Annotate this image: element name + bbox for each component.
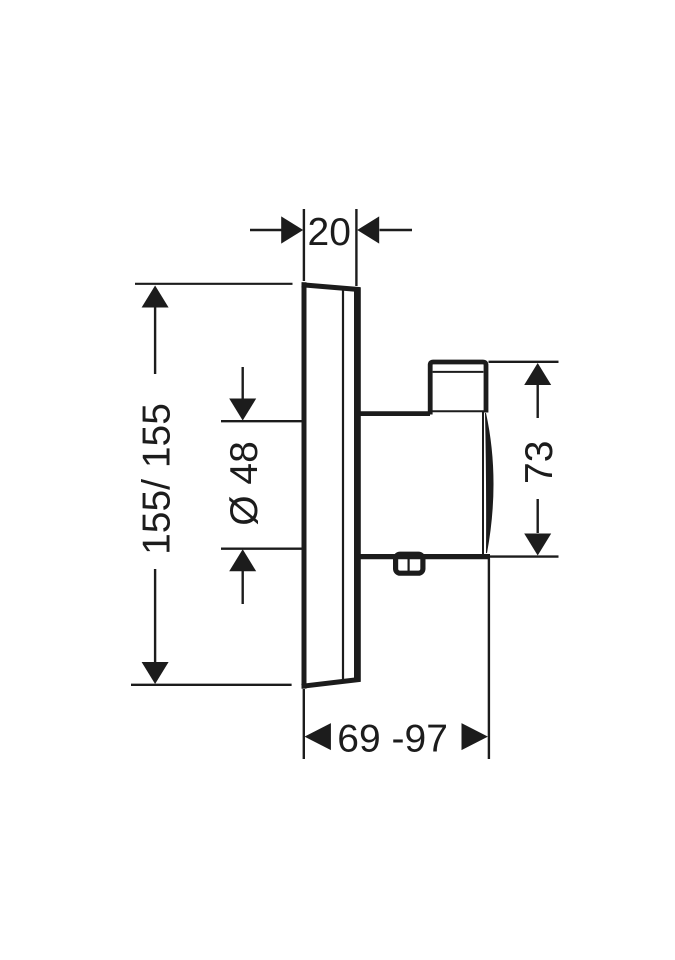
dim 73: upper line bbox=[537, 384, 539, 418]
escutcheon plate: front face inner line bbox=[342, 289, 344, 682]
escutcheon plate side view: left edge bbox=[302, 282, 307, 688]
svg-text:73: 73 bbox=[518, 441, 561, 484]
dim 69-97: right extension line bbox=[488, 559, 490, 760]
svg-text:69 -97: 69 -97 bbox=[337, 718, 448, 761]
dim 69-97: left extension line bbox=[303, 689, 305, 759]
dim 155/155: upper line bbox=[154, 306, 156, 374]
dim 20: left extension line bbox=[303, 209, 305, 281]
svg-text:155/ 155: 155/ 155 bbox=[136, 403, 179, 555]
escutcheon plate: bottom edge bbox=[302, 679, 361, 686]
dim diameter 48: lower arrowhead bbox=[229, 549, 256, 571]
dim 155/155: lower line bbox=[154, 569, 156, 664]
dim 73: bottom extension line bbox=[490, 555, 559, 557]
svg-text:Ø 48: Ø 48 bbox=[223, 441, 266, 526]
dim 73: lower line bbox=[537, 499, 539, 533]
dim 20: right tail bbox=[380, 229, 413, 231]
escutcheon plate: top edge bbox=[302, 285, 361, 290]
dim 155/155: bottom extension line bbox=[131, 684, 292, 686]
valve body: bottom edge bbox=[356, 554, 490, 559]
dim diameter 48: lower line bbox=[241, 570, 243, 604]
dim 20: left arrowhead bbox=[281, 216, 303, 243]
dim diameter 48: upper tick bbox=[221, 420, 303, 422]
svg-text:20: 20 bbox=[308, 211, 351, 254]
escutcheon plate: right edge bbox=[354, 287, 361, 681]
dim 20: right arrowhead bbox=[357, 216, 379, 243]
retaining clip tab bbox=[396, 554, 423, 573]
dim 20: left tail bbox=[250, 229, 282, 231]
dim 20: right extension line bbox=[355, 209, 357, 286]
valve body: top edge bbox=[356, 411, 430, 416]
dim diameter 48: upper line bbox=[241, 367, 243, 400]
clip tab divider bbox=[408, 557, 410, 571]
dim 155/155: top arrowhead bbox=[142, 286, 169, 308]
dim diameter 48: lower tick bbox=[221, 548, 303, 550]
dim diameter 48: upper arrowhead bbox=[229, 399, 256, 421]
valve body: thin edge under knob bbox=[429, 410, 486, 412]
dim 73: upper arrowhead bbox=[524, 363, 551, 385]
stop knob outline bbox=[430, 362, 486, 415]
valve body: right edge bbox=[482, 412, 484, 555]
dim 73: lower arrowhead bbox=[524, 534, 551, 556]
dim 69-97: right arrowhead bbox=[462, 723, 488, 750]
dim 155/155: top extension line bbox=[135, 283, 293, 285]
dim 69-97: left arrowhead bbox=[305, 723, 331, 750]
valve body: cartridge dome arc bbox=[486, 413, 494, 553]
stop knob chamfer line bbox=[433, 371, 484, 373]
dim 155/155: bottom arrowhead bbox=[142, 662, 169, 684]
dim 73: top extension line bbox=[489, 361, 559, 363]
